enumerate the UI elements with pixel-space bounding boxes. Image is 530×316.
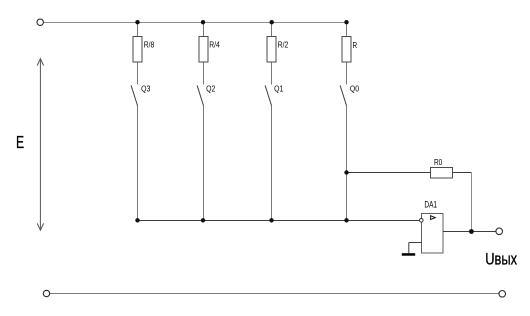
svg-text:E: E (16, 132, 24, 152)
svg-text:DA1: DA1 (424, 200, 437, 210)
svg-text:R0: R0 (434, 157, 443, 167)
svg-text:R: R (353, 40, 358, 50)
svg-text:Q3: Q3 (141, 84, 150, 94)
svg-text:Q2: Q2 (206, 84, 215, 94)
svg-text:Q0: Q0 (350, 84, 359, 94)
svg-text:R/4: R/4 (209, 40, 220, 50)
svg-text:Uвых: Uвых (485, 251, 517, 269)
svg-text:R/2: R/2 (278, 40, 289, 50)
svg-text:Q1: Q1 (274, 84, 283, 94)
svg-text:R/8: R/8 (144, 40, 155, 50)
